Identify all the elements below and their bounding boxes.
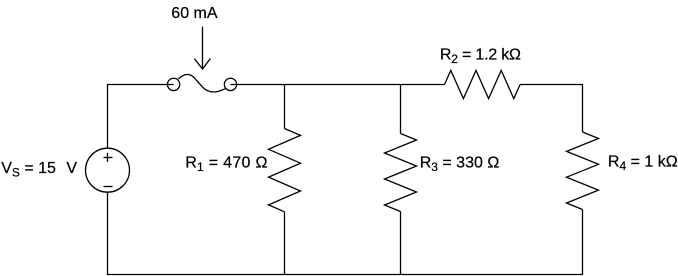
wire R3 branch lower — [400, 212, 402, 276]
svg-text:R2 = 1.2 kΩ: R2 = 1.2 kΩ — [440, 47, 521, 66]
wire R4 branch upper — [582, 84, 584, 132]
resistor R4 — [567, 132, 599, 210]
wire R1 branch lower — [284, 212, 286, 275]
voltage source VS — [86, 148, 130, 192]
wire top middle horizontal — [231, 84, 445, 86]
wire top-left horizontal — [108, 84, 174, 86]
wire top-right horizontal — [520, 84, 582, 86]
svg-text:60 mA: 60 mA — [171, 5, 218, 22]
resistor R3 — [385, 134, 417, 212]
wire R1 branch upper — [284, 84, 286, 129]
svg-text:R3 = 330 Ω: R3 = 330 Ω — [420, 154, 500, 174]
resistor R1 — [269, 129, 301, 212]
current arrow — [194, 27, 210, 69]
wire left vertical upper — [107, 84, 109, 148]
wire left vertical lower — [107, 192, 109, 275]
wire R3 branch upper — [400, 84, 402, 134]
wire R4 branch lower — [582, 210, 584, 276]
svg-text:VS = 15 V: VS = 15 V — [1, 160, 77, 180]
wire bottom horizontal — [108, 274, 583, 276]
resistor R2 — [445, 70, 521, 98]
svg-text:R1 = 470 Ω: R1 = 470 Ω — [185, 154, 268, 174]
fuse F1 — [167, 75, 236, 92]
svg-text:R4 = 1 kΩ: R4 = 1 kΩ — [608, 154, 678, 174]
